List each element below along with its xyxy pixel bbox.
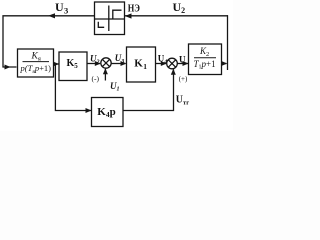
svg-text:Kя: Kя <box>31 52 41 63</box>
arrowhead into junction 2 <box>161 61 167 66</box>
svg-text:НЭ: НЭ <box>128 3 140 14</box>
summing junction 2 <box>167 58 178 69</box>
arrowhead into block W1 <box>5 65 11 70</box>
wire U2: from right riser along top into NE <box>125 15 229 17</box>
wire takeoff junction down to K4p input <box>55 64 91 111</box>
svg-text:U3: U3 <box>55 0 68 15</box>
arrowhead into K5 <box>53 62 59 67</box>
arrowhead up into junction 2 <box>171 69 176 75</box>
input U1 stub into junction 1 <box>104 69 106 81</box>
block W2 K2/(T1p+1) <box>189 44 222 75</box>
nonlinear element NE box <box>95 2 125 35</box>
W1 fraction bar <box>23 61 50 63</box>
svg-text:K1: K1 <box>134 58 147 71</box>
arrowhead into K1 <box>121 61 127 66</box>
svg-text:U1: U1 <box>110 81 120 93</box>
arrowhead into K4p <box>86 108 92 113</box>
NE vertical axis <box>108 6 110 32</box>
summing junction 1 <box>101 58 111 68</box>
wire U3: NE output left along top, down left edge, into block W1 <box>3 16 95 67</box>
wire K1 to summing junction 2 <box>156 63 167 65</box>
svg-text:K2: K2 <box>199 46 209 58</box>
block K1 <box>127 47 156 82</box>
svg-text:Uтг: Uтг <box>176 94 189 106</box>
svg-text:p(Tяp+1): p(Tяp+1) <box>20 63 52 75</box>
wire K4p output to junction 2 bottom (Utg feedback) <box>123 69 174 110</box>
arrowhead at riser junction <box>221 61 227 66</box>
NE hysteresis upper branch <box>113 10 122 19</box>
svg-text:U2: U2 <box>173 0 186 15</box>
svg-text:(-): (-) <box>92 74 100 83</box>
wire W2 output to right riser <box>222 63 227 65</box>
arrowhead into NE right side <box>125 13 132 18</box>
wire junction 1 to K1 <box>111 63 125 65</box>
block K5 <box>59 52 87 81</box>
svg-text:K4p: K4p <box>97 106 115 119</box>
arrowhead of U1 stub <box>103 68 108 74</box>
W2 fraction bar <box>194 57 216 59</box>
svg-text:(+): (+) <box>179 75 188 83</box>
wire junction 2 to block W2 <box>177 63 188 65</box>
NE hysteresis lower branch <box>98 22 104 28</box>
junction 2 cross <box>168 60 175 67</box>
wire K5 to summing junction 1 <box>87 63 100 65</box>
junction 1 cross <box>102 59 109 66</box>
svg-text:U: U <box>179 54 186 64</box>
block W1 Kya/(p(Tya p+1)) <box>18 49 54 77</box>
wire W1 output to K5 <box>54 63 59 65</box>
arrowhead mid top-left line pointing left <box>48 13 55 18</box>
arrowhead into W2 <box>183 61 189 66</box>
svg-text:K5: K5 <box>67 58 79 70</box>
block K4p <box>92 98 124 127</box>
right riser wire <box>227 15 229 70</box>
arrowhead into junction 1 <box>95 61 101 66</box>
svg-text:T1p+1: T1p+1 <box>194 59 216 71</box>
NE horizontal axis <box>95 18 125 20</box>
